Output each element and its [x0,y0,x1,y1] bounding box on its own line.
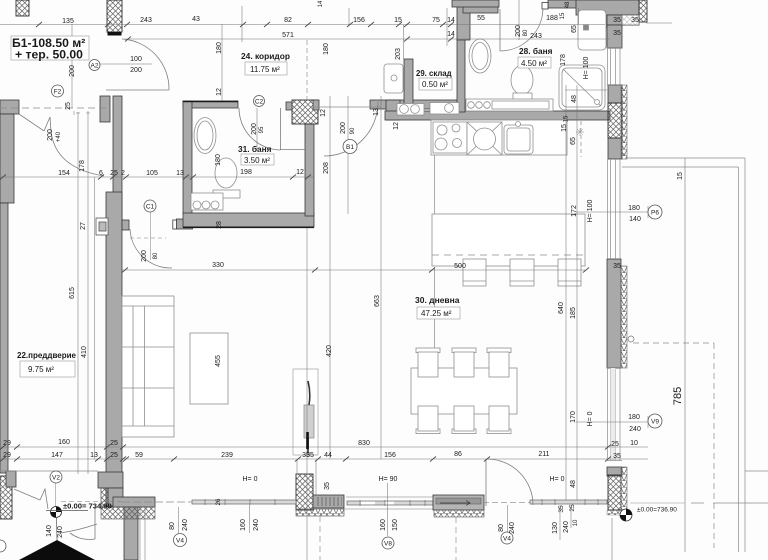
svg-text:H= 0: H= 0 [243,476,258,483]
svg-text:25: 25 [110,170,118,177]
svg-text:10: 10 [630,440,638,447]
svg-text:6: 6 [99,170,103,177]
svg-text:A2: A2 [91,63,99,70]
svg-text:10: 10 [573,519,579,526]
svg-text:86: 86 [454,451,462,458]
svg-text:15: 15 [560,12,566,19]
svg-text:12: 12 [320,109,327,117]
svg-text:48: 48 [570,480,577,488]
svg-text:160: 160 [240,519,247,531]
svg-text:V8: V8 [384,541,392,548]
svg-text:C2: C2 [255,99,264,106]
svg-text:240: 240 [253,519,260,531]
svg-text:H= 100: H= 100 [583,57,590,80]
svg-text:13: 13 [176,170,184,177]
svg-text:178: 178 [560,54,567,66]
svg-text:200: 200 [47,129,54,141]
svg-text:15: 15 [561,124,568,132]
svg-text:200: 200 [515,25,522,37]
svg-text:243: 243 [140,17,152,24]
svg-text:13: 13 [373,108,380,116]
svg-text:500: 500 [454,263,466,270]
svg-text:239: 239 [221,452,233,459]
svg-text:200: 200 [130,67,142,74]
svg-text:V2: V2 [52,475,60,482]
svg-text:420: 420 [326,345,333,357]
svg-text:180: 180 [216,42,223,54]
svg-text:+ тер. 50.00: + тер. 50.00 [15,48,83,62]
svg-text:25: 25 [611,441,619,448]
svg-text:55: 55 [477,15,485,22]
svg-text:615: 615 [69,287,76,299]
svg-text:3.50 м²: 3.50 м² [244,156,270,165]
svg-text:130: 130 [552,522,559,534]
svg-text:H= 90: H= 90 [379,476,398,483]
svg-text:59: 59 [135,452,143,459]
svg-text:180: 180 [628,205,640,212]
svg-text:48: 48 [571,95,578,103]
svg-text:V9: V9 [651,419,659,426]
svg-text:F2: F2 [54,89,62,96]
svg-text:154: 154 [58,170,70,177]
svg-text:V4: V4 [176,538,184,545]
svg-text:150: 150 [392,519,399,531]
svg-text:29. склад: 29. склад [416,69,452,78]
svg-text:11.75 м²: 11.75 м² [250,65,280,74]
svg-text:28. баня: 28. баня [519,46,553,56]
svg-text:200: 200 [340,122,347,134]
svg-text:H= 0: H= 0 [550,476,565,483]
svg-text:35: 35 [613,17,621,24]
svg-text:455: 455 [215,355,222,367]
svg-text:9.75 м²: 9.75 м² [28,365,54,374]
svg-text:80: 80 [153,252,159,259]
svg-text:80: 80 [523,29,529,36]
svg-text:35: 35 [613,30,621,37]
svg-text:75: 75 [432,17,440,24]
svg-text:15: 15 [564,115,570,122]
svg-text:4.50 м²: 4.50 м² [521,59,547,68]
svg-text:640: 640 [558,302,565,314]
svg-text:±0.00= 734.90: ±0.00= 734.90 [63,502,112,511]
svg-text:100: 100 [130,56,142,63]
svg-text:14: 14 [318,0,324,7]
svg-text:240: 240 [509,522,516,534]
svg-text:35: 35 [613,453,621,460]
svg-text:25: 25 [569,504,576,512]
svg-text:330: 330 [212,262,224,269]
svg-text:188: 188 [546,15,558,22]
svg-text:0.50 м²: 0.50 м² [422,80,448,89]
svg-text:27: 27 [80,222,87,230]
svg-text:2: 2 [121,170,125,177]
svg-text:12: 12 [216,88,223,96]
svg-text:830: 830 [358,440,370,447]
svg-text:44: 44 [324,452,332,459]
svg-text:29: 29 [3,452,11,459]
svg-text:15: 15 [677,172,684,180]
svg-text:65: 65 [571,25,578,33]
svg-text:80: 80 [169,522,176,530]
svg-text:35: 35 [613,263,621,270]
svg-text:65: 65 [570,137,577,145]
svg-text:240: 240 [629,426,641,433]
svg-text:105: 105 [146,170,158,177]
svg-text:35: 35 [324,482,331,490]
svg-text:211: 211 [538,451,549,458]
svg-text:12: 12 [393,122,400,130]
svg-text:160: 160 [380,519,387,531]
svg-text:240: 240 [563,521,570,533]
svg-text:±0.00=736.90: ±0.00=736.90 [637,507,677,514]
svg-text:80: 80 [498,524,505,532]
svg-text:160: 160 [58,439,70,446]
svg-text:90: 90 [350,127,356,134]
svg-text:14: 14 [447,31,455,38]
svg-text:240: 240 [57,526,64,538]
svg-text:240: 240 [182,519,189,531]
svg-text:35: 35 [631,17,639,24]
svg-text:35: 35 [306,452,314,459]
svg-text:H= 100: H= 100 [587,200,594,223]
svg-text:200: 200 [69,65,76,77]
svg-text:22.преддверие: 22.преддверие [17,351,77,360]
svg-text:13: 13 [90,452,98,459]
svg-text:172: 172 [571,205,578,217]
svg-text:82: 82 [284,17,292,24]
svg-text:25: 25 [65,102,72,110]
svg-text:26: 26 [216,498,222,505]
svg-text:156: 156 [384,452,396,459]
svg-text:135: 135 [62,18,74,25]
svg-text:663: 663 [374,295,381,307]
svg-text:24. коридор: 24. коридор [241,51,290,61]
svg-text:180: 180 [323,43,330,55]
svg-text:B1: B1 [346,144,354,151]
svg-text:203: 203 [395,48,402,60]
svg-text:200: 200 [251,123,258,135]
svg-text:180: 180 [215,154,222,166]
svg-text:35: 35 [558,505,565,513]
svg-text:P6: P6 [651,210,659,217]
svg-text:48: 48 [565,1,571,8]
svg-text:43: 43 [192,16,200,23]
svg-text:95: 95 [259,126,265,133]
svg-text:156: 156 [353,17,365,24]
svg-text:+40: +40 [56,131,62,142]
svg-text:185: 185 [570,307,577,319]
svg-text:200: 200 [141,250,148,262]
svg-text:47.25 м²: 47.25 м² [421,309,452,318]
svg-text:180: 180 [628,414,640,421]
svg-text:25: 25 [110,452,118,459]
svg-text:410: 410 [81,346,88,358]
svg-text:25: 25 [110,440,118,447]
svg-text:140: 140 [46,525,53,537]
svg-text:785: 785 [672,387,684,405]
svg-text:C1: C1 [146,204,155,211]
svg-text:12: 12 [296,169,304,176]
svg-text:571: 571 [282,32,294,39]
svg-text:140: 140 [629,216,641,223]
svg-text:208: 208 [323,162,330,174]
svg-text:170: 170 [570,411,577,423]
svg-text:15: 15 [394,17,402,24]
svg-text:14: 14 [447,17,455,24]
svg-text:H= 0: H= 0 [587,411,594,426]
svg-text:198: 198 [240,169,252,176]
svg-text:30. дневна: 30. дневна [415,295,460,305]
svg-text:178: 178 [79,160,86,172]
svg-text:147: 147 [51,452,63,459]
svg-text:31. баня: 31. баня [238,144,272,154]
svg-text:243: 243 [530,33,542,40]
svg-text:V4: V4 [503,536,511,543]
svg-text:29: 29 [3,440,11,447]
svg-text:28: 28 [216,221,223,229]
